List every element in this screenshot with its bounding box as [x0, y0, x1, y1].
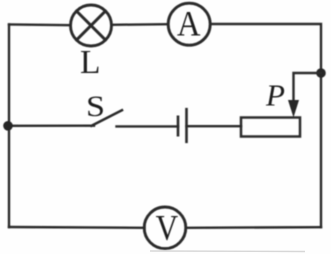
svg-text:S: S [86, 90, 105, 123]
wire: voltmeter to bottom-right corner [186, 226, 321, 229]
junction dot (left) [3, 121, 13, 131]
svg-text:A: A [177, 4, 201, 44]
switch S (open blade) [92, 110, 123, 126]
ammeter A [168, 3, 210, 45]
wire: bottom-left corner to voltmeter [9, 226, 145, 229]
faint scan smudge at bottom [150, 250, 305, 253]
wire: right vertical from junction to bottom-right corner [320, 73, 322, 227]
voltmeter V [144, 207, 186, 249]
rheostat P (resistor box) [241, 118, 300, 137]
svg-text:L: L [80, 44, 100, 81]
svg-text:P: P [265, 78, 285, 113]
wire: switch to battery negative [117, 125, 179, 127]
junction dot (right) [316, 68, 326, 78]
wire: top-left corner to lamp [9, 23, 71, 26]
wiper arrow of rheostat [288, 100, 299, 118]
wire: battery positive to rheostat left terminal [187, 125, 242, 127]
wire: junction to rheostat wiper [294, 73, 322, 106]
battery cell B [178, 109, 187, 142]
lamp L (circle with X) [71, 5, 112, 46]
wire: left junction to switch pivot [8, 124, 94, 127]
wire: left vertical (top-left corner down to bottom-left corner) [8, 25, 10, 228]
wire: ammeter to top-right corner, down right side to junction [210, 24, 321, 73]
svg-text:V: V [156, 208, 179, 248]
wire: lamp to ammeter [112, 23, 169, 26]
